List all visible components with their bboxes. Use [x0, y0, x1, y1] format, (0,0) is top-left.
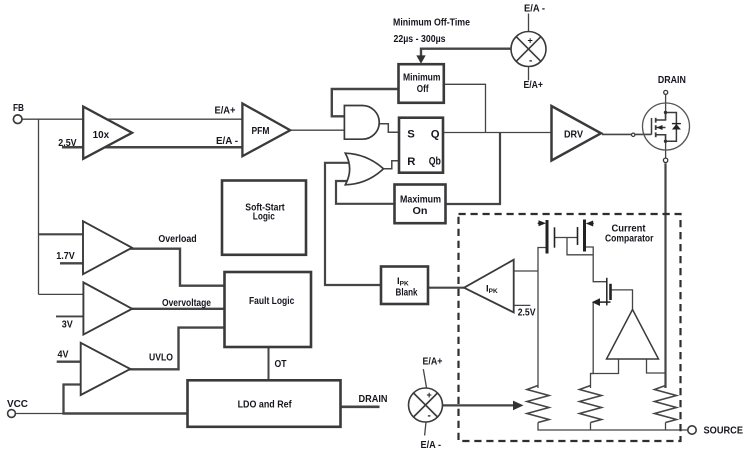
MOSFET body circle [643, 103, 690, 150]
wire DRAIN stub from LDO [341, 405, 380, 408]
block IPK Blank [381, 267, 428, 305]
svg-text:E/A+: E/A+ [524, 80, 544, 91]
wire OT Fault Logic to LDO [268, 347, 270, 381]
svg-text:+: + [528, 36, 533, 46]
wire above top multiplier [528, 14, 530, 32]
multiplier top (E/A) [511, 32, 546, 67]
svg-text:1.7V: 1.7V [56, 251, 75, 262]
comparator IPK [464, 260, 514, 313]
wire below top multiplier [528, 67, 530, 81]
wire left mirror transistor source down to resistor R1 [538, 248, 548, 389]
wire Maximum On to OR gate bottom input [336, 181, 395, 204]
svg-text:Blank: Blank [396, 288, 418, 299]
wire 3V reference input [56, 315, 84, 317]
svg-text:Fault Logic: Fault Logic [249, 296, 295, 307]
svg-text:3V: 3V [62, 319, 73, 330]
wire Minimum Off right side down to Q line [444, 84, 486, 132]
dashed box Current Comparator [459, 214, 681, 441]
arrowhead into Minimum Off [416, 55, 425, 63]
block LDO and Ref [188, 380, 341, 427]
svg-text:-: - [529, 56, 532, 67]
MOSFET body diode branch [666, 113, 677, 142]
svg-text:Off: Off [417, 84, 429, 95]
wire FB to E/A+ input of PFM [22, 118, 243, 120]
svg-text:Overload: Overload [158, 234, 196, 245]
svg-text:Overvoltage: Overvoltage [162, 298, 211, 309]
wire sense transistor source down to resistor R2 node [591, 302, 594, 373]
svg-text:E/A -: E/A - [524, 4, 545, 15]
svg-text:Comparator: Comparator [605, 234, 654, 245]
comparator Overload [83, 221, 132, 274]
wire resistor R3 bottom lead [665, 423, 667, 431]
wire Q output to DRV [444, 132, 552, 134]
wire DRAIN pin into MOSFET [665, 95, 667, 121]
svg-text:PFM: PFM [252, 126, 270, 137]
svg-text:2.5V: 2.5V [518, 307, 536, 318]
OR gate [345, 153, 383, 185]
wire resistor R2 bottom lead [590, 423, 592, 431]
wire op-amp left leg [591, 359, 619, 388]
wire IPK Blank output to IPK comparator [428, 287, 464, 289]
wire arrow bottom multiplier to resistor R1 [442, 404, 516, 406]
wire gate node staircase down to sense transistor [567, 238, 593, 255]
mirror transistor right [578, 220, 585, 252]
svg-text:S: S [407, 129, 415, 141]
wire DRV output to MOSFET gate [602, 133, 652, 135]
AND gate [344, 106, 379, 140]
wire 4V reference input [57, 361, 82, 363]
wire 2.5V / E/A- line to PFM [62, 146, 242, 149]
wire resistor bottoms bus to SOURCE [538, 423, 688, 431]
wire OR output to R input [384, 161, 400, 169]
pin FB [13, 115, 22, 124]
svg-text:E/A -: E/A - [216, 136, 238, 147]
wire multiplier to Minimum Off with down arrow [421, 49, 511, 57]
wire Overvoltage output to Fault Logic [131, 308, 225, 310]
block Soft-Start Logic [222, 181, 306, 255]
wire AND output to S input [379, 124, 399, 132]
amplifier 10x [83, 107, 132, 159]
svg-text:DRAIN: DRAIN [658, 75, 686, 86]
svg-text:Q: Q [431, 129, 440, 141]
svg-text:E/A+: E/A+ [423, 357, 443, 368]
MOSFET body arrow [657, 125, 663, 130]
wire mirror gates interconnect [555, 237, 578, 239]
node DRV gate circle [632, 133, 635, 136]
wire FB vertical branch to comparators [38, 119, 40, 294]
svg-text:+: + [427, 390, 432, 400]
resistor R3 [655, 386, 677, 423]
wire above bottom multiplier E/A+ [423, 369, 426, 388]
svg-text:UVLO: UVLO [149, 353, 173, 364]
pin DRAIN top [664, 90, 668, 94]
svg-text:2.5V: 2.5V [58, 138, 77, 149]
mirror transistor left [547, 220, 555, 254]
wire MOSFET source to bottom pin [665, 134, 667, 159]
svg-text:4V: 4V [58, 350, 69, 361]
wire op-amp right leg [647, 359, 666, 373]
comparator PFM [242, 104, 290, 157]
MOSFET drain lead [656, 113, 666, 121]
wire IPK comparator 2.5V terminal [514, 304, 531, 306]
wire VCC branch to UVLO lower input [64, 385, 82, 414]
pin MOSFET source bottom [663, 158, 667, 162]
MOSFET body tap with arrow [656, 127, 666, 129]
MOSFET body diode [672, 124, 681, 130]
svg-text:OT: OT [275, 359, 287, 370]
svg-text:E/A -: E/A - [421, 440, 442, 451]
resistor R2 [580, 386, 602, 423]
junction dot drain [664, 111, 667, 114]
svg-text:10x: 10x [93, 130, 110, 141]
svg-text:Minimum: Minimum [403, 72, 441, 83]
wire UVLO output to Fault Logic [129, 328, 225, 370]
sense transistor [599, 278, 611, 306]
MOSFET internals [652, 113, 677, 142]
multiplier bottom (E/A) [409, 388, 443, 422]
wire right mirror drain lead [585, 247, 607, 282]
svg-text:Qb: Qb [429, 156, 441, 168]
resistor R1 [527, 386, 549, 423]
svg-text:DRV: DRV [564, 130, 583, 141]
wire below bottom multiplier E/A- [425, 422, 426, 436]
pin VCC [8, 410, 16, 418]
wire Overload output to Fault Logic [131, 249, 225, 286]
op-amp in current comparator [607, 310, 659, 360]
arrowhead bottom multiplier to R1 [513, 401, 524, 411]
MOSFET channel segments [655, 118, 657, 123]
MOSFET source lead [656, 135, 666, 142]
svg-text:E/A+: E/A+ [215, 106, 236, 117]
svg-text:R: R [407, 156, 415, 168]
wire MOSFET source sense line down to resistor R3 [664, 163, 666, 388]
svg-text:VCC: VCC [7, 399, 28, 410]
comparator UVLO [81, 343, 131, 395]
BLOCKS [188, 64, 446, 427]
wire PFM output to AND gate [290, 129, 348, 131]
wire VCC to LDO and Ref [15, 413, 63, 415]
svg-text:FB: FB [13, 103, 24, 114]
block Fault Logic [225, 272, 312, 347]
wire Minimum Off feedback to AND gate top input [332, 89, 399, 116]
wire IPK comparator upper right terminal [514, 270, 538, 272]
svg-text:-: - [428, 411, 431, 422]
MOSFET gate bar [651, 118, 653, 135]
block Maximum On [395, 185, 446, 224]
wire 1.7V reference input [60, 262, 84, 264]
svg-text:SOURCE: SOURCE [704, 426, 744, 437]
svg-text:Minimum Off-Time: Minimum Off-Time [393, 18, 470, 29]
block SR latch [399, 118, 443, 173]
wire IPK Blank to OR gate top input [325, 163, 381, 285]
pin SOURCE [688, 426, 696, 434]
junction dot source [664, 140, 667, 143]
svg-text:Logic: Logic [253, 212, 275, 223]
comparator Overvoltage [83, 282, 132, 334]
driver DRV [552, 106, 602, 161]
svg-text:22µs - 300µs: 22µs - 300µs [394, 34, 446, 45]
svg-text:LDO and Ref: LDO and Ref [238, 400, 293, 411]
block Minimum Off [399, 64, 444, 103]
svg-text:On: On [413, 206, 428, 217]
svg-text:Maximum: Maximum [400, 195, 441, 206]
wire branch to Overvoltage comparator top input [39, 293, 85, 295]
wire sense transistor drain to op-amp apex [612, 290, 633, 310]
wire Maximum On right side up to Q line [446, 133, 500, 205]
svg-text:DRAIN: DRAIN [359, 394, 388, 405]
wire branch to Overload comparator top input [39, 233, 85, 235]
